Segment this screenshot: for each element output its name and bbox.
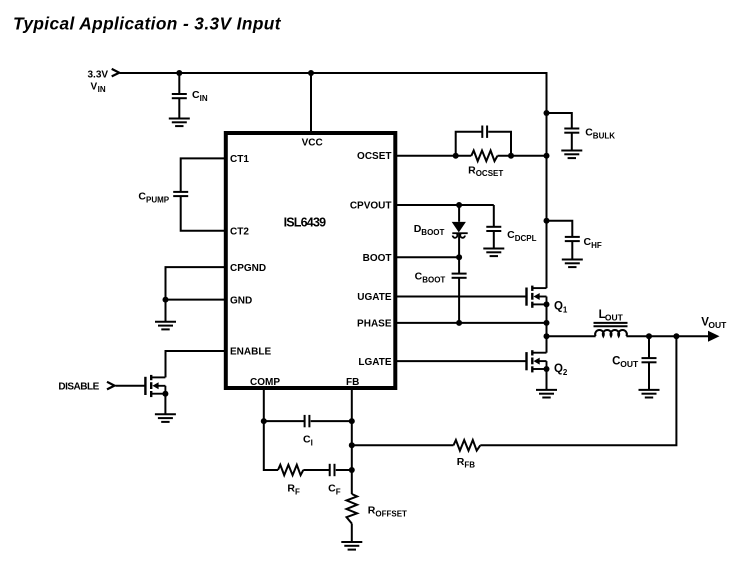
svg-text:BOOT: BOOT (422, 275, 445, 284)
svg-text:I: I (311, 438, 313, 447)
svg-text:CT1: CT1 (230, 154, 249, 165)
svg-text:F: F (336, 487, 341, 496)
svg-text:F: F (295, 487, 300, 496)
svg-text:PUMP: PUMP (146, 195, 170, 204)
svg-text:FB: FB (464, 461, 475, 470)
svg-text:DCPL: DCPL (515, 234, 537, 243)
svg-text:ENABLE: ENABLE (230, 347, 271, 358)
svg-text:C: C (612, 355, 620, 367)
svg-text:DISABLE: DISABLE (58, 382, 99, 393)
svg-text:ISL6439: ISL6439 (284, 215, 327, 229)
svg-text:LGATE: LGATE (358, 357, 391, 368)
svg-text:OFFSET: OFFSET (375, 509, 407, 518)
svg-text:VCC: VCC (302, 138, 323, 149)
svg-text:UGATE: UGATE (357, 292, 392, 303)
svg-text:OUT: OUT (620, 359, 639, 369)
svg-text:V: V (91, 81, 98, 92)
svg-text:IN: IN (98, 85, 106, 94)
svg-text:CPGND: CPGND (230, 263, 266, 274)
svg-text:OUT: OUT (605, 313, 624, 323)
svg-text:HF: HF (591, 241, 602, 250)
svg-text:COMP: COMP (250, 377, 280, 388)
svg-text:1: 1 (563, 305, 568, 314)
svg-text:BOOT: BOOT (421, 228, 444, 237)
svg-text:Q: Q (554, 363, 563, 375)
svg-text:Q: Q (554, 300, 563, 312)
svg-text:OCSET: OCSET (476, 169, 504, 178)
svg-text:CT2: CT2 (230, 227, 249, 238)
svg-text:FB: FB (346, 377, 359, 388)
svg-text:Typical Application - 3.3V Inp: Typical Application - 3.3V Input (13, 13, 282, 33)
svg-text:GND: GND (230, 295, 252, 306)
svg-text:PHASE: PHASE (357, 319, 392, 330)
svg-text:OUT: OUT (708, 320, 727, 330)
svg-text:3.3V: 3.3V (88, 69, 109, 80)
svg-text:BOOT: BOOT (363, 253, 392, 264)
svg-text:CPVOUT: CPVOUT (350, 201, 392, 212)
svg-text:IN: IN (200, 94, 208, 103)
svg-text:BULK: BULK (593, 131, 615, 140)
svg-text:2: 2 (563, 368, 568, 377)
svg-text:OCSET: OCSET (357, 151, 391, 162)
